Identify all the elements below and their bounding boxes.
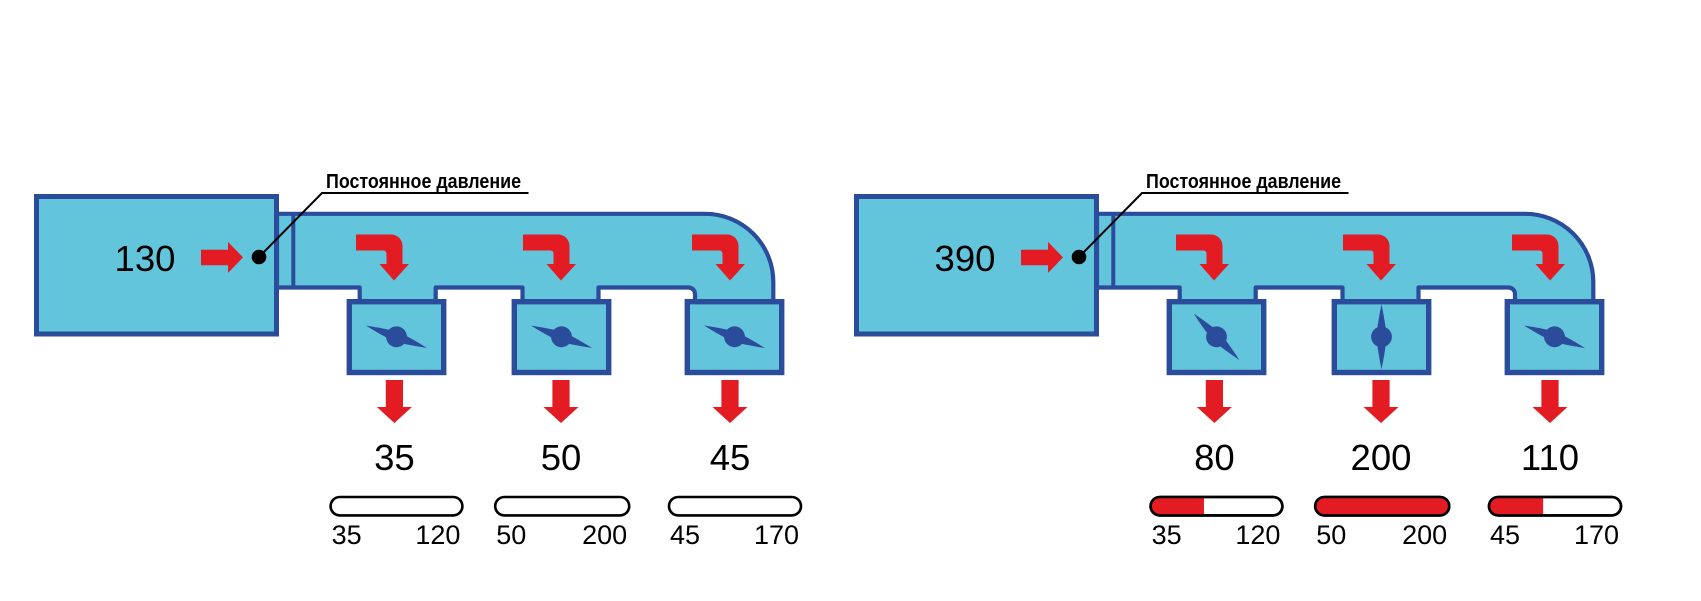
outlet arrow R-2	[1364, 380, 1399, 423]
damper blade L-1	[362, 316, 430, 358]
outlet arrow L-3	[713, 380, 748, 423]
svg-text:120: 120	[415, 520, 460, 550]
svg-text:45: 45	[670, 520, 700, 550]
svg-text:130: 130	[115, 238, 176, 279]
svg-text:Постоянное давление: Постоянное давление	[326, 171, 521, 193]
duct collar joint R	[1111, 214, 1115, 287]
outlet arrow L-1	[377, 380, 412, 423]
duct main trunk L	[277, 214, 773, 304]
svg-text:45: 45	[1490, 520, 1520, 550]
bent flow arrow L-2	[523, 234, 576, 280]
outlet arrow R-1	[1197, 380, 1232, 423]
pressure point dot R	[1072, 250, 1087, 265]
damper blade R-3	[1520, 316, 1588, 358]
damper box L-1	[349, 302, 443, 373]
svg-text:50: 50	[541, 437, 582, 478]
gauge bar red fill R-2	[1315, 497, 1449, 515]
damper box R-2	[1334, 302, 1428, 373]
svg-text:Постоянное давление: Постоянное давление	[1146, 171, 1341, 193]
duct collar joint L	[291, 214, 295, 287]
plenum box R (value 390)	[857, 197, 1097, 335]
callout leader line L	[259, 193, 529, 257]
pressure point dot L	[252, 250, 267, 265]
damper box L-2	[514, 302, 608, 373]
svg-text:80: 80	[1194, 437, 1235, 478]
svg-text:110: 110	[1521, 437, 1579, 478]
gauge bar red fill R-1	[1151, 497, 1204, 515]
svg-text:35: 35	[332, 520, 362, 550]
plenum box L (value 130)	[37, 197, 277, 335]
svg-text:45: 45	[710, 437, 751, 478]
damper blade L-3	[700, 316, 768, 358]
svg-text:120: 120	[1235, 520, 1280, 550]
svg-text:35: 35	[374, 437, 415, 478]
svg-text:170: 170	[754, 520, 799, 550]
svg-text:390: 390	[935, 238, 996, 279]
damper box R-3	[1507, 302, 1601, 373]
damper blade L-2	[527, 316, 595, 358]
damper box L-3	[687, 302, 781, 373]
gauge bar red fill R-3	[1489, 497, 1543, 515]
svg-text:50: 50	[1316, 520, 1346, 550]
outlet arrow R-3	[1533, 380, 1568, 423]
damper box R-1	[1169, 302, 1263, 373]
gauge bar L-2	[495, 497, 629, 515]
bent flow arrow R-1	[1176, 234, 1229, 280]
bent flow arrow L-3	[692, 234, 745, 280]
bent flow arrow R-2	[1343, 234, 1396, 280]
svg-text:200: 200	[1351, 437, 1412, 478]
svg-text:35: 35	[1152, 520, 1182, 550]
gauge bar L-3	[669, 497, 801, 515]
damper blade R-2	[1371, 304, 1392, 369]
bent flow arrow R-3	[1512, 234, 1565, 280]
red inlet arrow L	[201, 242, 243, 273]
svg-text:200: 200	[582, 520, 627, 550]
gauge bar L-1	[331, 497, 463, 515]
svg-text:200: 200	[1402, 520, 1447, 550]
red inlet arrow R	[1021, 242, 1063, 273]
duct main trunk R	[1097, 214, 1593, 304]
svg-text:170: 170	[1574, 520, 1619, 550]
callout leader line R	[1079, 193, 1349, 257]
damper blade R-1	[1186, 306, 1246, 367]
bent flow arrow L-1	[356, 234, 409, 280]
outlet arrow L-2	[544, 380, 579, 423]
svg-text:50: 50	[496, 520, 526, 550]
